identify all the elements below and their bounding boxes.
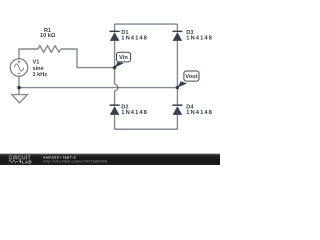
svg-text:1N4148: 1N4148: [186, 36, 213, 42]
svg-text:1N4148: 1N4148: [121, 36, 148, 42]
wire bottom rail: [115, 128, 178, 130]
wire V1 top to R1: [19, 49, 38, 59]
node junction at V1 ground: [17, 86, 21, 90]
svg-text:V1: V1: [33, 60, 40, 66]
wire top rail: [115, 23, 178, 25]
node flag Vin: [117, 52, 131, 62]
diode D3: [172, 31, 182, 41]
svg-text:Vout: Vout: [185, 74, 197, 80]
D3 labels: [186, 30, 213, 42]
wire V1 bottom: [18, 76, 20, 87]
resistor R1: [38, 46, 61, 52]
voltage source V1: [10, 59, 28, 77]
wire hop over ground rail: [115, 84, 118, 91]
node flag Vout pointer: [177, 81, 187, 87]
V1 labels: [33, 60, 48, 79]
wire left column D1 to Vin node: [114, 41, 116, 68]
diode D2: [110, 104, 120, 115]
wire right column D4 to bottom rail: [176, 115, 178, 129]
svg-text:1N4148: 1N4148: [121, 110, 148, 116]
wire left column D2 to bottom rail: [114, 115, 116, 129]
D1 labels: [121, 30, 148, 42]
wire right column Vout to D4: [176, 88, 178, 105]
D2 labels: [121, 104, 148, 116]
wire right column top (rail to D3): [176, 24, 178, 31]
node junction Vout: [176, 86, 180, 90]
CircuitLab logo: [9, 155, 33, 164]
svg-text:LAB: LAB: [22, 159, 33, 164]
node flag Vin pointer: [115, 62, 124, 68]
diode D4: [172, 104, 182, 115]
R1 value labels: [40, 28, 56, 39]
svg-text:1 kHz: 1 kHz: [33, 72, 48, 78]
wire left column hop to D2: [114, 91, 116, 105]
D4 labels: [186, 104, 213, 116]
ground: [12, 88, 28, 103]
wire R1 right to Vin node: [61, 49, 115, 68]
wire ground rail to Vout: [19, 87, 177, 89]
svg-text:http://circuitlab.com/c/7977fa: http://circuitlab.com/c/7977fa8999d: [43, 160, 107, 164]
node flag Vout: [184, 71, 199, 81]
wire left column Vin to hop: [114, 68, 116, 85]
svg-text:Vin: Vin: [119, 55, 128, 61]
node junction Vin: [113, 66, 117, 70]
diode D1: [110, 31, 120, 41]
wire left column top (rail to D1): [114, 24, 116, 31]
svg-text:10 kΩ: 10 kΩ: [40, 33, 56, 39]
svg-text:1N4148: 1N4148: [186, 110, 213, 116]
wire right column D3 to Vout node: [176, 41, 178, 88]
svg-text:sine: sine: [33, 66, 44, 72]
